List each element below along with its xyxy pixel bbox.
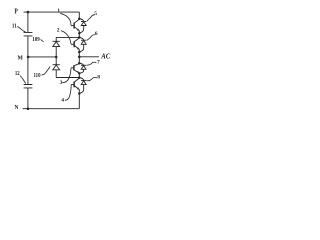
svg-text:M: M (18, 54, 24, 61)
transistor Q1 base bar (73, 23, 75, 29)
leader for 110 (42, 67, 51, 75)
diode D109 triangle (53, 42, 60, 47)
transistor Q2 emitter arrowhead (77, 47, 79, 50)
diode D5 triangle (81, 22, 86, 26)
node S1 bottom junction dot (78, 32, 81, 35)
wire DC link between cap11 and M (27, 36, 29, 57)
node clamp bottom tap dot (78, 76, 81, 79)
leader for 109 (41, 39, 44, 41)
leader for 3 (62, 68, 71, 82)
diode D110 triangle (53, 65, 60, 70)
diode D7 bottom lead (80, 69, 84, 73)
node AC junction dot (78, 55, 81, 58)
node N junction dot (27, 107, 30, 110)
transistor Q4 emitter (74, 86, 79, 90)
diode D8 cathode bar (81, 79, 86, 81)
node S2 bottom junction dot (78, 51, 81, 54)
wire clamp branch upper stub (55, 37, 57, 41)
leader for 5 (87, 15, 95, 21)
transistor Q1 collector (74, 19, 79, 23)
wire clamp branch 109-M segment (55, 47, 57, 57)
svg-text:109: 109 (32, 37, 39, 43)
transistor Q4 base lead (71, 84, 74, 86)
node S4 bottom junction dot (78, 92, 81, 95)
transistor Q4 collector (74, 78, 79, 82)
wire DC link lower segment (27, 88, 29, 109)
diode D8 bottom lead (80, 85, 84, 94)
transistor Q4 base bar (73, 82, 75, 88)
wire clamp bottom horizontal (56, 77, 79, 79)
diode D6 triangle (81, 41, 86, 45)
wire chain AC-S3 segment (78, 57, 80, 64)
leader for 2 (61, 31, 71, 44)
diode D6 top lead (79, 37, 83, 40)
svg-text:1: 1 (57, 8, 60, 14)
transistor Q1 base lead (71, 25, 74, 27)
node clamp top tap dot (78, 36, 81, 39)
diode D5 top lead (79, 19, 83, 22)
svg-text:12: 12 (15, 70, 20, 77)
wire Q2 emitter stub (78, 49, 80, 52)
wire Q4 emitter stub (78, 90, 80, 94)
wire P rail (24, 11, 80, 13)
leader for 4 (65, 85, 71, 100)
svg-text:110: 110 (34, 73, 41, 79)
capacitor 11 (24, 32, 33, 36)
transistor Q2 collector (74, 38, 79, 42)
transistor Q3 emitter (74, 70, 79, 73)
wire chain S2-AC segment (78, 52, 80, 57)
svg-text:P: P (14, 6, 18, 15)
diode D8 top lead (79, 78, 83, 81)
transistor Q4 emitter arrowhead (77, 87, 79, 90)
diode D109 cathode bar (53, 40, 60, 42)
transistor Q2 base lead (71, 43, 74, 45)
leader for 7 (87, 62, 97, 65)
node S3 bottom junction dot (78, 72, 81, 75)
svg-text:11: 11 (12, 23, 17, 30)
svg-text:4: 4 (61, 97, 64, 103)
wire N rail (23, 108, 80, 110)
leader for 12 (20, 76, 26, 84)
wire clamp top horizontal (56, 36, 79, 38)
transistor Q1 emitter (74, 27, 79, 31)
node S1 top junction dot (78, 17, 81, 20)
transistor Q3 emitter arrowhead (77, 71, 79, 73)
wire clamp branch lower stub (55, 70, 57, 78)
capacitor 12 (24, 85, 33, 88)
leader for 1 (60, 13, 71, 25)
node S3 top junction dot (78, 62, 81, 65)
diode D110 cathode bar (53, 64, 60, 66)
wire chain top drop from P rail (78, 12, 80, 19)
svg-text:3: 3 (60, 80, 63, 86)
svg-text:7: 7 (97, 60, 100, 66)
transistor Q2 base bar (73, 41, 75, 47)
wire DC link between M and cap12 (27, 57, 29, 85)
node P junction dot (27, 11, 30, 14)
svg-text:N: N (15, 104, 19, 111)
transistor Q1 emitter arrowhead (77, 29, 79, 32)
transistor Q3 base lead (71, 67, 74, 69)
diode D7 triangle (81, 66, 86, 70)
svg-text:5: 5 (94, 11, 97, 17)
diode D5 bottom lead (80, 26, 84, 33)
diode D8 triangle (81, 81, 86, 85)
diode D7 top lead (79, 63, 83, 65)
transistor Q2 emitter (74, 45, 79, 49)
node M junction dot (27, 56, 30, 59)
svg-text:AC: AC (100, 53, 110, 61)
node clamp M junction dot (55, 56, 58, 59)
wire chain S1-clamp segment (78, 33, 80, 37)
diode D6 cathode bar (81, 39, 86, 41)
wire M rail (28, 56, 56, 58)
wire chain bottom drop to N rail (78, 94, 80, 109)
leader for 6 (87, 35, 95, 41)
leader for 11 (17, 27, 25, 32)
wire clamp branch M-110 segment (55, 57, 57, 65)
transistor Q3 collector (74, 64, 79, 66)
wire chain S3-clamp segment (78, 73, 80, 77)
wire DC link upper segment (27, 12, 29, 32)
wire AC output line (79, 56, 99, 58)
leader for 8 (87, 77, 97, 80)
diode D7 cathode bar (81, 64, 86, 66)
diode D6 bottom lead (80, 44, 84, 51)
svg-text:8: 8 (97, 75, 100, 81)
transistor Q3 base bar (73, 65, 75, 70)
svg-text:6: 6 (95, 31, 98, 37)
diode D5 cathode bar (81, 21, 86, 23)
svg-text:2: 2 (57, 28, 60, 34)
wire Q1 emitter stub (78, 31, 80, 34)
